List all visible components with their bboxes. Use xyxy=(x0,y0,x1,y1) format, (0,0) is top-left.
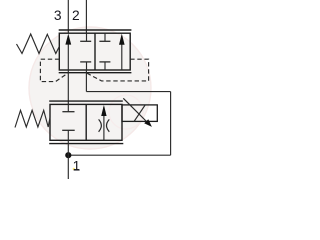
V1 upper parallel line xyxy=(59,29,132,31)
pilot line left (spring side) xyxy=(40,59,68,81)
junction node xyxy=(65,152,71,158)
wire V1 out to V2 (node 3 to throttle) xyxy=(67,70,69,104)
V1 left cell blocked port top xyxy=(80,33,91,41)
V2 left cell blocked port bottom xyxy=(62,130,74,140)
V1 lower parallel line xyxy=(59,72,132,74)
node 1 line lower xyxy=(67,155,69,179)
wire bottom horizontal xyxy=(68,154,170,156)
V1 left cell blocked port bottom xyxy=(80,62,91,70)
svg-text:3: 3 xyxy=(54,8,62,23)
svg-text:1: 1 xyxy=(73,159,81,174)
variable orifice box xyxy=(122,105,157,122)
watermark circle xyxy=(29,27,151,170)
V1 spring xyxy=(17,34,60,54)
wire node 2 down xyxy=(85,70,87,92)
V1 right cell flow arrow xyxy=(119,34,125,70)
V1 right cell blocked port bottom xyxy=(99,62,110,70)
node 3 port line xyxy=(67,0,69,33)
node 1 line upper xyxy=(67,140,69,155)
wire right vertical xyxy=(170,92,172,156)
compensator valve V1 body xyxy=(59,33,130,70)
throttle valve V2 body xyxy=(50,104,122,140)
V2 left cell blocked port top xyxy=(62,104,74,111)
svg-text:2: 2 xyxy=(72,8,80,23)
variable orifice diagonal xyxy=(134,105,145,122)
wire node 2 horizontal xyxy=(86,91,170,93)
node 2 port line xyxy=(85,0,87,33)
V2 right cell flow arrow with restriction xyxy=(99,105,110,140)
V2 upper parallel line xyxy=(49,100,123,102)
adjustment arrow xyxy=(123,98,152,127)
V1 right cell blocked port top xyxy=(99,33,110,41)
V2 lower parallel line xyxy=(49,143,123,145)
V2 spring xyxy=(15,110,50,127)
V1 left cell flow arrow xyxy=(65,34,71,70)
pilot line right xyxy=(86,59,148,81)
